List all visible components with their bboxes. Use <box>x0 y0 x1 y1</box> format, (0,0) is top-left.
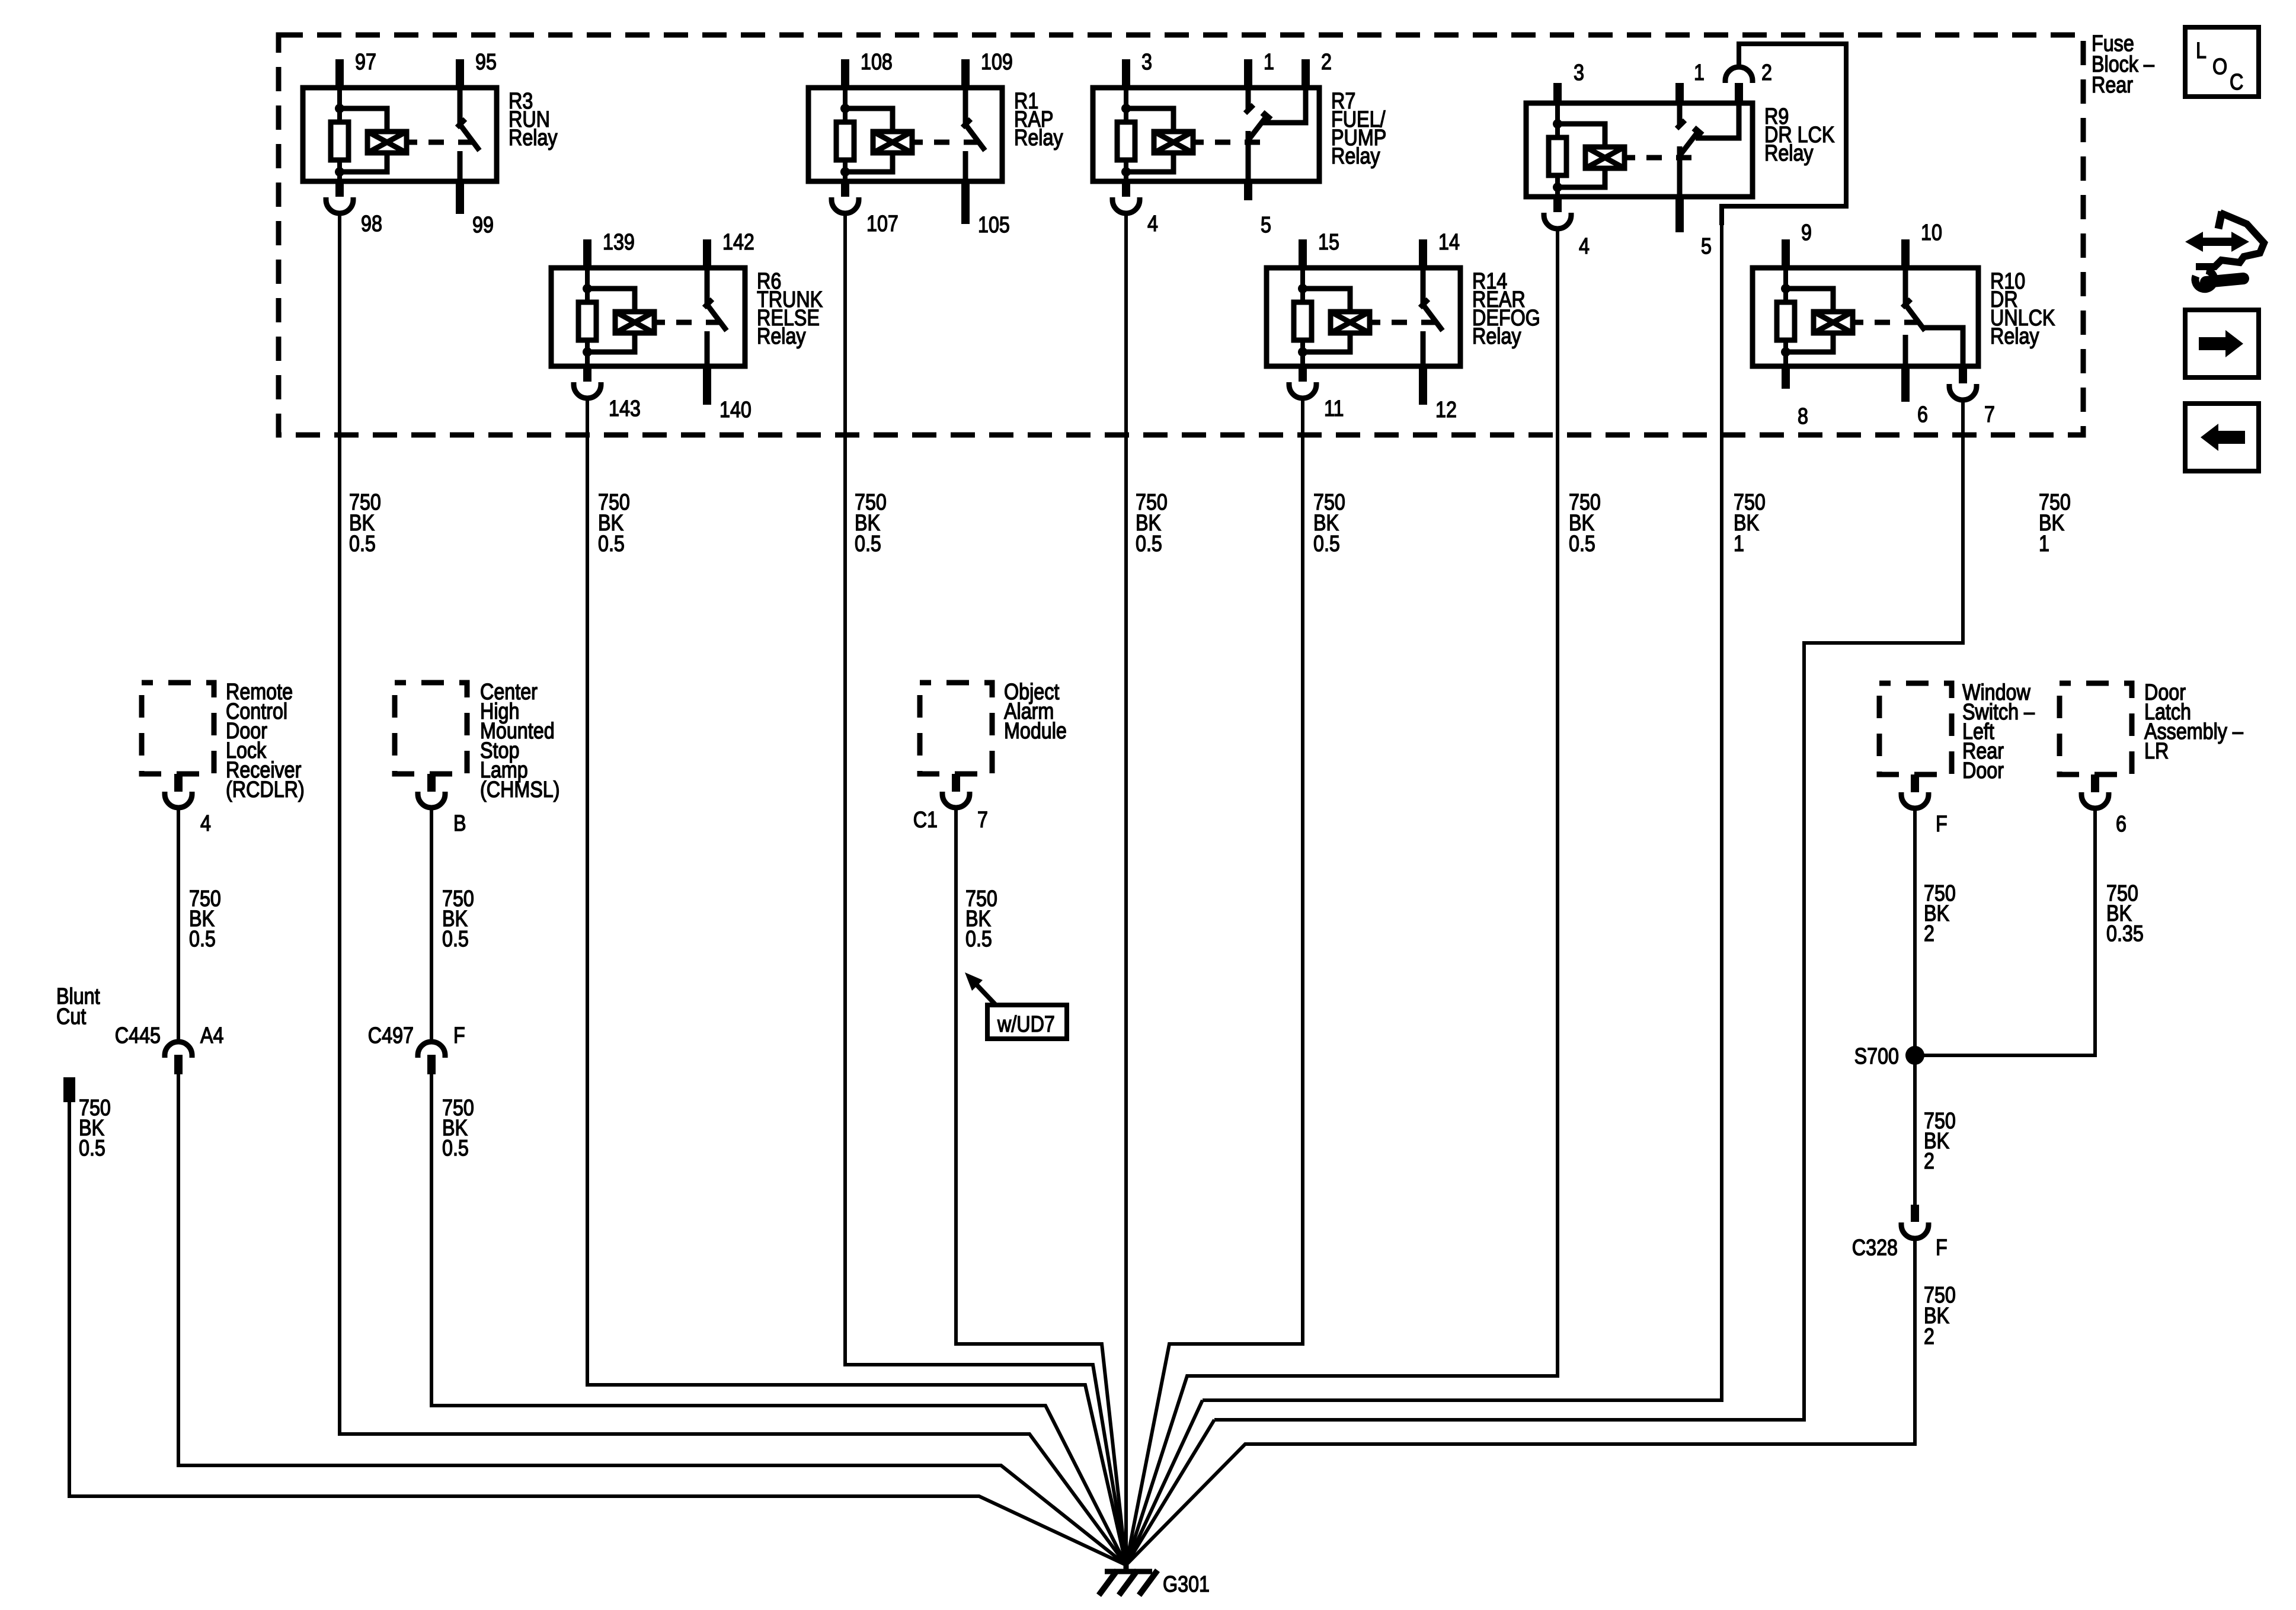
svg-text:C: C <box>2230 70 2243 95</box>
svg-text:Relay: Relay <box>757 324 806 349</box>
svg-text:4: 4 <box>1579 234 1590 259</box>
svg-text:1: 1 <box>1264 50 1274 75</box>
svg-text:F: F <box>453 1023 465 1048</box>
svg-text:A4: A4 <box>200 1023 223 1048</box>
svg-text:L: L <box>2196 39 2207 63</box>
svg-text:Relay: Relay <box>1014 126 1063 151</box>
svg-text:F: F <box>1936 1235 1948 1260</box>
svg-text:Relay: Relay <box>1764 141 1814 166</box>
svg-text:Rear: Rear <box>2092 73 2133 98</box>
svg-text:Cut: Cut <box>56 1004 86 1029</box>
svg-text:1: 1 <box>2039 532 2049 556</box>
svg-text:105: 105 <box>978 213 1010 238</box>
svg-text:2: 2 <box>1924 1324 1934 1349</box>
svg-text:B: B <box>453 811 466 836</box>
svg-text:w/UD7: w/UD7 <box>997 1012 1055 1037</box>
svg-text:0.5: 0.5 <box>189 927 216 952</box>
svg-text:C497: C497 <box>368 1023 414 1048</box>
svg-text:0.5: 0.5 <box>1569 532 1595 556</box>
svg-text:15: 15 <box>1318 230 1339 255</box>
svg-text:Relay: Relay <box>509 126 558 151</box>
svg-text:1: 1 <box>1694 60 1705 85</box>
svg-text:8: 8 <box>1798 404 1808 429</box>
svg-text:0.5: 0.5 <box>1136 532 1162 556</box>
svg-text:143: 143 <box>609 396 641 421</box>
svg-text:0.5: 0.5 <box>965 927 992 952</box>
svg-text:0.5: 0.5 <box>79 1136 105 1161</box>
svg-text:0.5: 0.5 <box>855 532 881 556</box>
svg-text:F: F <box>1936 812 1948 837</box>
svg-text:G301: G301 <box>1163 1572 1210 1597</box>
svg-text:14: 14 <box>1438 230 1460 255</box>
svg-text:5: 5 <box>1261 213 1271 238</box>
svg-text:LR: LR <box>2144 739 2169 764</box>
svg-text:97: 97 <box>355 50 376 75</box>
svg-text:Relay: Relay <box>1990 324 2039 349</box>
svg-text:7: 7 <box>1984 402 1995 427</box>
svg-text:0.5: 0.5 <box>1313 532 1340 556</box>
svg-text:0.5: 0.5 <box>349 532 376 556</box>
svg-text:140: 140 <box>720 398 752 422</box>
svg-text:0.5: 0.5 <box>598 532 625 556</box>
svg-text:(CHMSL): (CHMSL) <box>480 777 560 802</box>
svg-text:95: 95 <box>475 50 497 75</box>
svg-text:C1: C1 <box>913 808 938 833</box>
svg-text:2: 2 <box>1321 50 1332 75</box>
svg-text:Door: Door <box>1962 758 2004 783</box>
svg-text:5: 5 <box>1701 234 1712 259</box>
svg-text:11: 11 <box>1324 396 1344 421</box>
svg-text:3: 3 <box>1574 60 1584 85</box>
svg-text:12: 12 <box>1435 398 1457 422</box>
svg-text:1: 1 <box>1734 532 1744 556</box>
svg-text:Module: Module <box>1004 719 1067 744</box>
svg-text:3: 3 <box>1141 50 1152 75</box>
svg-text:Relay: Relay <box>1331 144 1380 169</box>
svg-text:Relay: Relay <box>1472 324 1521 349</box>
svg-text:107: 107 <box>866 212 898 236</box>
svg-text:108: 108 <box>861 50 893 75</box>
svg-text:0.35: 0.35 <box>2106 921 2144 946</box>
svg-text:C445: C445 <box>115 1023 161 1048</box>
svg-text:7: 7 <box>977 808 988 833</box>
svg-text:0.5: 0.5 <box>442 1136 469 1161</box>
svg-text:10: 10 <box>1921 220 1942 245</box>
svg-text:139: 139 <box>603 230 635 255</box>
svg-text:0.5: 0.5 <box>442 927 469 952</box>
svg-text:9: 9 <box>1801 220 1812 245</box>
svg-text:O: O <box>2212 55 2227 79</box>
svg-text:4: 4 <box>200 811 211 836</box>
svg-text:142: 142 <box>722 230 754 255</box>
svg-text:4: 4 <box>1147 212 1158 236</box>
svg-text:S700: S700 <box>1854 1044 1899 1069</box>
svg-text:99: 99 <box>472 213 494 238</box>
svg-text:6: 6 <box>2116 812 2126 837</box>
svg-text:6: 6 <box>1917 402 1928 427</box>
svg-text:2: 2 <box>1924 1149 1934 1174</box>
svg-text:(RCDLR): (RCDLR) <box>226 777 305 802</box>
svg-text:C328: C328 <box>1852 1235 1898 1260</box>
svg-text:2: 2 <box>1761 60 1772 85</box>
svg-text:98: 98 <box>361 212 382 236</box>
svg-text:2: 2 <box>1924 921 1934 946</box>
svg-text:109: 109 <box>981 50 1013 75</box>
